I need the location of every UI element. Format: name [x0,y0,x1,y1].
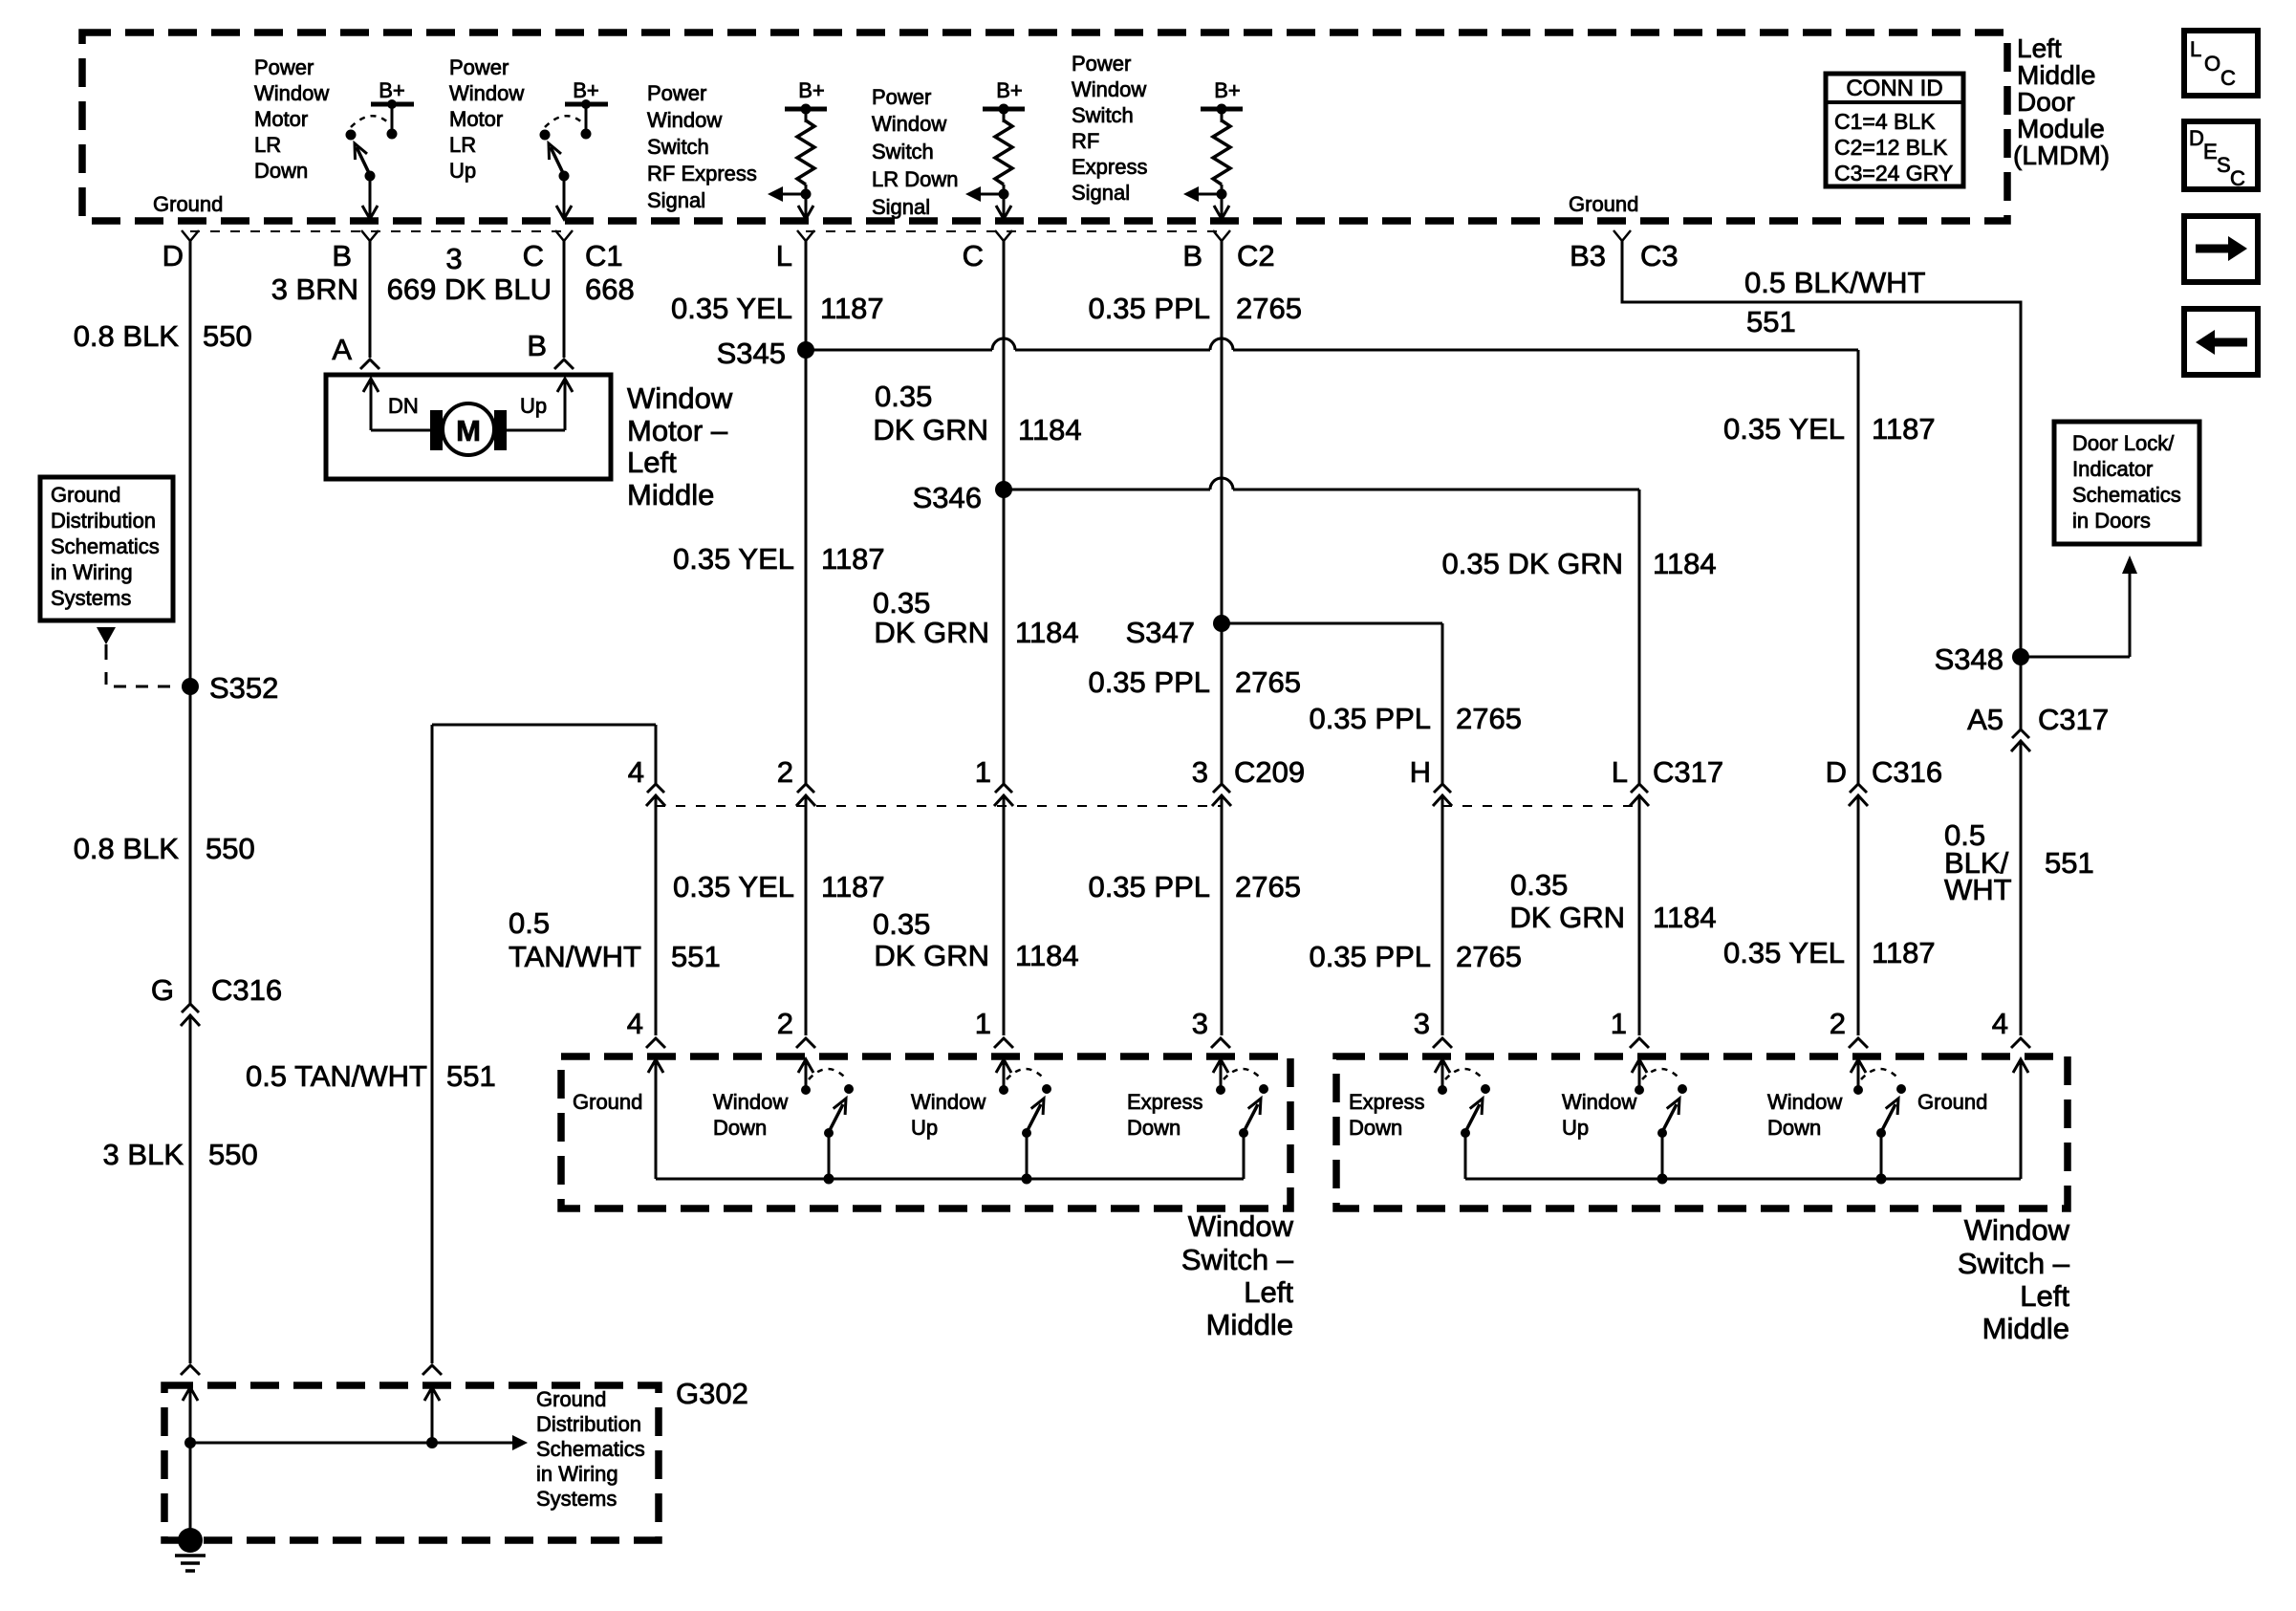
svg-text:in Wiring: in Wiring [51,560,133,584]
motor pin B internal wire [507,429,565,432]
svg-text:1184: 1184 [1018,413,1082,446]
svg-text:Window: Window [254,81,329,105]
svg-text:Middle: Middle [627,478,714,512]
wire D C316 to right switch Window Down [1857,797,1860,1035]
svg-text:Left: Left [2020,1279,2069,1313]
svg-text:B3: B3 [1570,239,1606,272]
svg-text:D: D [2189,126,2204,150]
svg-text:550: 550 [203,319,252,353]
svg-text:LR: LR [449,133,476,157]
G302 box (dashed) [164,1385,659,1540]
svg-text:(LMDM): (LMDM) [2013,141,2110,170]
svg-text:668: 668 [585,272,635,306]
wire L C317 to right switch Window Up [1638,797,1641,1035]
wire 0.35 YEL 1187 (pin L down to C209 pin 2) [805,241,808,784]
svg-text:Power: Power [254,55,314,79]
connector pin C (C1) [555,230,573,241]
wire pin2 C209 to left switch Window Down [805,797,808,1035]
svg-text:Up: Up [449,159,476,183]
G302 internal bus [190,1442,512,1445]
svg-text:Distribution: Distribution [51,509,156,533]
svg-text:A5: A5 [1967,703,2004,736]
left box common bus wire [656,1178,1244,1181]
dashed branch to S352 [106,672,180,686]
wire S345 to right (to D C316 column) [806,349,992,352]
wire S348 branch to Door Lock schematics [2021,656,2130,659]
svg-text:Window: Window [713,1090,788,1114]
Left Middle Door Module (LMDM) dashed outline [82,33,2007,221]
wire 669 DK BLU (pin C to motor B) [563,241,566,358]
ground symbol [175,1554,206,1557]
motor pin A internal wire [363,379,379,392]
svg-text:C: C [963,239,984,272]
svg-text:DK GRN: DK GRN [874,939,989,972]
wire pin3 C209 to left switch Express Down [1221,797,1224,1035]
connector pin L C317 [1631,784,1648,793]
svg-text:0.35 PPL: 0.35 PPL [1309,940,1431,973]
wire 0.35 PPL 2765 (pin B down to C209 pin 3) [1221,241,1224,784]
svg-text:2765: 2765 [1235,665,1301,699]
svg-text:3 BLK: 3 BLK [103,1138,184,1171]
CONN ID table box [1826,74,1963,186]
svg-text:1184: 1184 [1653,547,1717,580]
svg-text:0.35: 0.35 [1510,868,1568,902]
svg-text:L: L [2190,37,2201,61]
G302 ground terminal dot [178,1528,203,1553]
svg-text:B+: B+ [996,78,1023,102]
connector pin 3 C209 [1213,784,1230,793]
Door Lock/Indicator Schematics in Doors box [2054,422,2199,544]
svg-text:0.35 YEL: 0.35 YEL [1723,936,1845,969]
right box Window Up switch [1632,1059,1647,1073]
connector pin B (C1) [361,230,379,241]
svg-text:Schematics: Schematics [2072,483,2181,507]
wire S346 branch down to L C317 [1638,490,1641,784]
motor pin B connector [554,359,574,369]
svg-text:Indicator: Indicator [2072,457,2153,481]
svg-text:0.35 DK GRN: 0.35 DK GRN [1441,547,1623,580]
svg-text:LR Down: LR Down [872,167,958,191]
svg-text:S352: S352 [209,671,278,705]
svg-text:Middle: Middle [1982,1312,2069,1345]
svg-text:C316: C316 [211,973,282,1007]
svg-text:0.35 PPL: 0.35 PPL [1309,702,1431,735]
connector pin D (C316) [182,230,199,241]
node S352 [182,678,199,695]
svg-text:Motor: Motor [449,107,503,131]
svg-text:Express: Express [1072,155,1147,179]
svg-text:1184: 1184 [1015,616,1079,649]
wire 550 entering G302 [181,1365,200,1375]
svg-text:D: D [1826,755,1847,789]
svg-text:Down: Down [713,1116,767,1140]
svg-text:Switch: Switch [1072,103,1134,127]
wire 0.5 TAN/WHT 551 (pin 4 col, up and over to G302) [655,725,658,784]
svg-text:Left: Left [2017,33,2062,63]
svg-text:Down: Down [1127,1116,1180,1140]
connector C1 dashed link line [190,230,564,232]
svg-text:Power: Power [449,55,509,79]
motor left brush [430,410,443,450]
connector pin B (C2) [1213,230,1230,241]
left box Window Up switch [996,1059,1011,1073]
svg-text:1187: 1187 [821,542,885,576]
svg-text:Door Lock/: Door Lock/ [2072,431,2175,455]
svg-text:0.35 YEL: 0.35 YEL [1723,412,1845,446]
svg-text:3: 3 [1192,1007,1208,1040]
svg-text:0.35 PPL: 0.35 PPL [1088,665,1210,699]
svg-text:1187: 1187 [1872,412,1936,446]
switch box pin 2 connector at x=1944 [1849,1038,1868,1048]
svg-text:4: 4 [627,1007,643,1040]
svg-text:G302: G302 [676,1377,748,1410]
switch box pin 3 connector at x=1277 [1211,1038,1230,1048]
svg-text:Express: Express [1127,1090,1202,1114]
LOC icon box [2184,31,2258,96]
svg-text:DK GRN: DK GRN [1509,901,1625,934]
connector pin 2 C209 [797,784,814,793]
svg-text:O: O [2204,52,2220,76]
svg-text:Window: Window [647,108,722,132]
wire 551 entering G302 [422,1365,442,1375]
svg-text:S: S [2217,153,2231,177]
svg-text:Window: Window [627,381,733,415]
svg-text:Signal: Signal [872,195,930,219]
svg-text:S348: S348 [1935,642,2004,676]
wire 0.35 DK GRN 1184 (pin C down to C209 pin 1) [1003,241,1006,784]
svg-text:Up: Up [911,1116,938,1140]
svg-text:G: G [151,973,174,1007]
svg-text:C317: C317 [1653,755,1723,789]
svg-text:Down: Down [1767,1116,1821,1140]
svg-text:Window: Window [1562,1090,1636,1114]
svg-text:0.35: 0.35 [873,586,930,620]
connector pin 4 C209 [647,784,664,793]
svg-text:2765: 2765 [1236,292,1302,325]
svg-text:S347: S347 [1126,616,1195,649]
svg-text:Window: Window [1072,77,1146,101]
svg-text:1184: 1184 [1653,901,1717,934]
svg-text:Middle: Middle [2017,60,2095,90]
svg-text:0.5 BLK/WHT: 0.5 BLK/WHT [1744,266,1926,299]
svg-text:0.35 YEL: 0.35 YEL [671,292,792,325]
left switch box Ground pin wire [648,1059,663,1073]
svg-text:Systems: Systems [536,1487,617,1511]
svg-text:Systems: Systems [51,586,131,610]
wire 3 BLK 550 from C316 to G302 [189,1017,192,1363]
svg-text:Switch –: Switch – [1181,1243,1294,1276]
svg-text:Switch –: Switch – [1958,1247,2070,1280]
svg-text:2765: 2765 [1456,702,1522,735]
C209 dashed link line [656,805,1221,807]
svg-text:Power: Power [872,85,931,109]
svg-text:0.35 YEL: 0.35 YEL [673,870,794,903]
connector C2 dashed link line [806,230,1222,232]
svg-text:B: B [332,239,352,272]
svg-text:Window: Window [911,1090,986,1114]
motor pin A connector [360,359,379,369]
svg-text:3: 3 [1192,755,1208,789]
svg-text:4: 4 [628,755,644,789]
G302 junction dot left [184,1437,196,1448]
svg-text:Signal: Signal [647,188,705,212]
Window Motor - Left Middle box [326,375,611,479]
svg-text:3: 3 [1414,1007,1430,1040]
wire 0.5 BLK/WHT 551 from pin B3 [1622,241,2021,350]
switch box pin 1 connector at x=1050 [994,1038,1013,1048]
switch box pin 4 connector at x=2114 [2011,1038,2030,1048]
left box Window Down switch [798,1059,813,1073]
svg-text:B+: B+ [573,78,599,102]
wire H C317 to right switch Express Down [1441,797,1444,1035]
svg-text:M: M [456,414,481,447]
connector pin 1 C209 [995,784,1012,793]
wire S347 to right (to H column) [1222,622,1442,625]
svg-text:in Doors: in Doors [2072,509,2151,533]
svg-text:1: 1 [1611,1007,1627,1040]
svg-text:RF: RF [1072,129,1099,153]
svg-text:C316: C316 [1872,755,1942,789]
svg-text:RF Express: RF Express [647,162,757,185]
connector pin B3 (C3) [1614,230,1631,241]
wire S346 to right (to L C317 column) [1004,489,1210,491]
svg-text:2: 2 [1830,1007,1846,1040]
DESC icon box [2184,121,2258,189]
connector pin H C317 [1434,784,1451,793]
Ground Distribution Schematics in Wiring Systems box (left) [40,477,173,620]
svg-text:L: L [776,239,792,272]
svg-text:Distribution: Distribution [536,1412,641,1436]
svg-text:Ground: Ground [1569,192,1638,216]
svg-text:C317: C317 [2038,703,2109,736]
connector pin L (C2) [797,230,814,241]
C317 dashed link line [1442,805,1639,807]
svg-text:551: 551 [1746,305,1796,338]
svg-text:Schematics: Schematics [536,1437,645,1461]
right box common bus wire [1465,1178,2021,1181]
left box Express Down switch [1213,1059,1228,1073]
back arrow icon box [2184,309,2258,375]
G302 tan wire internal [424,1387,440,1401]
svg-text:551: 551 [446,1059,496,1093]
svg-text:C2: C2 [1237,239,1275,272]
svg-text:in Wiring: in Wiring [536,1462,618,1486]
svg-text:DN: DN [388,394,419,418]
svg-text:3 BRN: 3 BRN [271,272,358,306]
svg-text:C: C [2220,66,2236,90]
svg-text:Motor: Motor [254,107,308,131]
svg-text:S345: S345 [717,337,786,370]
svg-text:1: 1 [975,755,991,789]
svg-text:Module: Module [2017,114,2105,143]
svg-text:B+: B+ [1214,78,1241,102]
svg-text:H: H [1410,755,1431,789]
svg-text:Window: Window [1188,1209,1294,1243]
switch box pin 4 connector at x=686 [646,1038,665,1048]
svg-text:2: 2 [777,755,793,789]
forward arrow icon box [2184,216,2258,282]
svg-text:C3: C3 [1640,239,1679,272]
wire pin1 C209 to left switch Window Up [1003,797,1006,1035]
svg-text:C1=4 BLK: C1=4 BLK [1834,109,1936,134]
right box Window Down switch [1851,1059,1866,1073]
connector pin D C316 [1850,784,1867,793]
right box Ground pin wire [2013,1059,2028,1073]
svg-text:DK GRN: DK GRN [873,413,988,446]
svg-text:D: D [162,239,184,272]
svg-text:Up: Up [1562,1116,1589,1140]
svg-text:Window: Window [1964,1213,2070,1247]
svg-text:3: 3 [445,242,462,275]
svg-text:B: B [1182,239,1202,272]
switch box pin 2 connector at x=843 [796,1038,815,1048]
svg-text:2765: 2765 [1235,870,1301,903]
wire A5 C317 to right switch Ground [2020,743,2023,1035]
svg-text:C3=24 GRY: C3=24 GRY [1834,161,1953,185]
svg-text:S346: S346 [913,481,982,514]
svg-text:0.5 TAN/WHT: 0.5 TAN/WHT [246,1059,427,1093]
connector pin C (C2) [995,230,1012,241]
Window Switch - Left Middle box (dashed) [561,1056,1290,1208]
svg-text:4: 4 [1992,1007,2008,1040]
svg-text:LR: LR [254,133,281,157]
wire 551 down to A5 C317 [2020,350,2023,729]
svg-text:C: C [2230,166,2245,190]
svg-text:Middle: Middle [1206,1308,1293,1341]
svg-text:550: 550 [206,832,255,865]
connector pin A5 C317 [2012,729,2029,738]
svg-text:B+: B+ [379,78,405,102]
svg-text:Ground: Ground [153,192,223,216]
svg-text:0.35: 0.35 [875,380,932,413]
svg-text:1: 1 [975,1007,991,1040]
svg-text:1187: 1187 [820,292,884,325]
switch box pin 3 connector at x=1509 [1433,1038,1452,1048]
svg-text:Signal: Signal [1072,181,1130,205]
svg-text:C209: C209 [1234,755,1305,789]
svg-text:B+: B+ [798,78,825,102]
connector G C316 inline [182,1004,199,1012]
svg-text:Ground: Ground [51,483,120,507]
wire S345 branch down to D C316 [1857,350,1860,784]
svg-text:Schematics: Schematics [51,534,160,558]
svg-text:0.5: 0.5 [509,906,550,940]
svg-text:TAN/WHT: TAN/WHT [509,940,641,973]
G302 junction dot mid [426,1437,438,1448]
svg-text:1187: 1187 [1872,936,1936,969]
svg-text:1187: 1187 [821,870,885,903]
svg-text:Express: Express [1349,1090,1424,1114]
switch box pin 1 connector at x=1715 [1630,1038,1649,1048]
svg-text:0.8 BLK: 0.8 BLK [74,319,180,353]
svg-text:Down: Down [1349,1116,1402,1140]
svg-text:Up: Up [520,394,547,418]
svg-text:Motor –: Motor – [627,414,728,447]
wire 3 BRN 669 (pin B to motor A) [369,241,372,358]
motor right brush [494,410,507,450]
svg-text:L: L [1612,755,1628,789]
svg-text:0.8 BLK: 0.8 BLK [74,832,180,865]
svg-text:Left: Left [627,446,677,479]
svg-text:551: 551 [671,940,721,973]
svg-text:2765: 2765 [1456,940,1522,973]
svg-text:Left: Left [1244,1275,1293,1309]
arrow from Ground Distribution box down [97,627,116,644]
svg-text:Ground: Ground [1917,1090,1987,1114]
svg-text:669 DK BLU: 669 DK BLU [387,272,552,306]
svg-text:Power: Power [1072,52,1131,76]
svg-text:CONN ID: CONN ID [1846,76,1942,101]
svg-text:C1: C1 [585,239,623,272]
svg-text:0.35 PPL: 0.35 PPL [1088,870,1210,903]
svg-text:551: 551 [2045,846,2094,880]
svg-text:1184: 1184 [1015,939,1079,972]
svg-text:550: 550 [208,1138,258,1171]
svg-text:C: C [523,239,544,272]
svg-text:E: E [2203,140,2218,163]
svg-text:B: B [527,329,547,362]
svg-text:0.35 PPL: 0.35 PPL [1088,292,1210,325]
svg-text:Ground: Ground [536,1387,606,1411]
svg-text:Window: Window [449,81,524,105]
svg-text:DK GRN: DK GRN [874,616,989,649]
svg-text:0.35 YEL: 0.35 YEL [673,542,794,576]
Window Switch - Left Middle box 2 (dashed) [1336,1056,2068,1208]
svg-text:Down: Down [254,159,308,183]
svg-text:Door: Door [2017,87,2075,117]
svg-text:Window: Window [1767,1090,1842,1114]
motor M circle [443,403,494,455]
svg-text:WHT: WHT [1944,873,2012,906]
svg-text:Power: Power [647,81,706,105]
svg-text:Window: Window [872,112,946,136]
wire 0.8 BLK 550 from pin D down to C316 [189,241,192,1004]
svg-text:Switch: Switch [647,135,709,159]
svg-text:0.35: 0.35 [873,907,930,941]
svg-text:2: 2 [777,1007,793,1040]
svg-text:Switch: Switch [872,140,934,163]
G302 left wire internal [183,1387,198,1401]
right box Express Down switch [1435,1059,1450,1073]
svg-text:A: A [332,333,352,366]
svg-text:Ground: Ground [573,1090,642,1114]
svg-text:C2=12 BLK: C2=12 BLK [1834,135,1948,160]
wire pin4 C209 to left switch Ground [655,797,658,1035]
